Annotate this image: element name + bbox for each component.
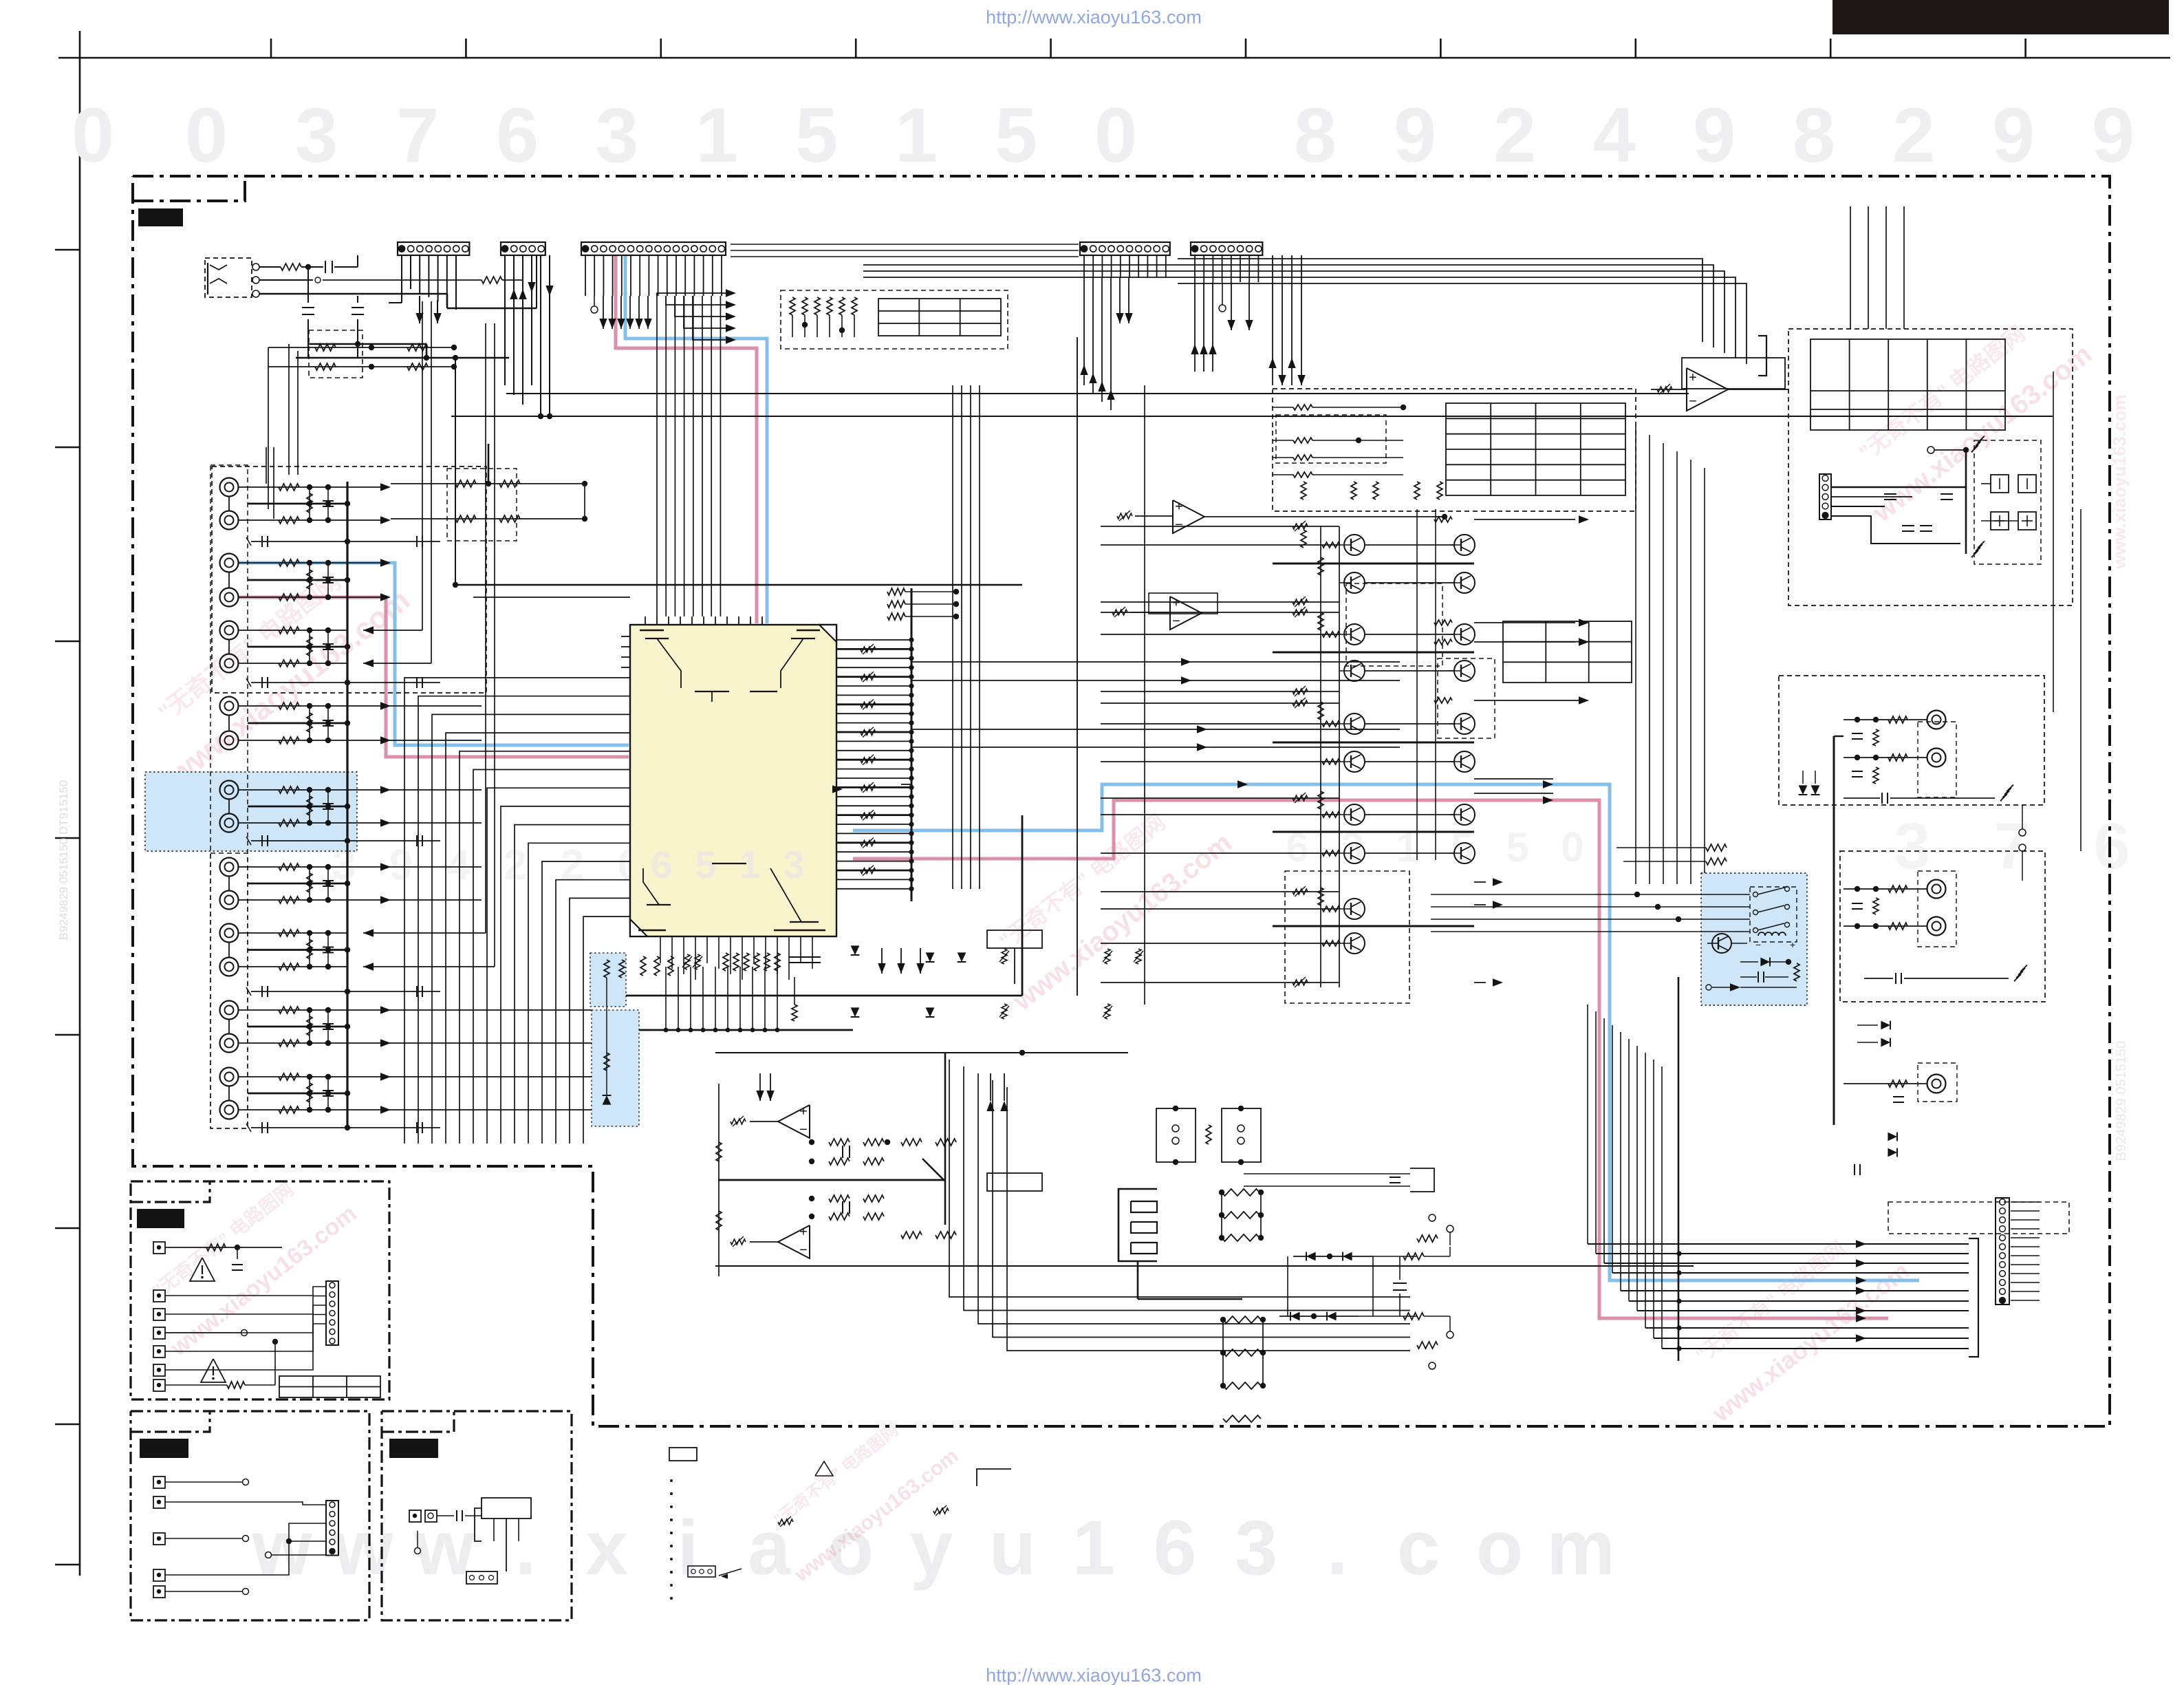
svg-text:3: 3	[783, 843, 804, 886]
svg-text:5: 5	[995, 92, 1037, 178]
svg-text:−: −	[1172, 614, 1180, 629]
svg-text:0: 0	[1094, 92, 1137, 178]
svg-text:6: 6	[496, 92, 539, 178]
svg-text:7: 7	[396, 92, 439, 178]
svg-text:w: w	[413, 1505, 475, 1591]
svg-text:8: 8	[1294, 92, 1337, 178]
svg-text:9: 9	[1394, 92, 1436, 178]
svg-text:w: w	[251, 1505, 312, 1591]
svg-text:+: +	[1790, 939, 1795, 950]
svg-text:2: 2	[1493, 92, 1536, 178]
svg-text:1: 1	[695, 92, 738, 178]
svg-text:0: 0	[1561, 824, 1583, 870]
svg-text:0: 0	[185, 92, 228, 178]
svg-text:9: 9	[389, 841, 413, 889]
svg-text:2: 2	[504, 841, 527, 889]
svg-text:www.xiaoyu163.com: www.xiaoyu163.com	[2109, 394, 2130, 569]
svg-text:http://www.xiaoyu163.com: http://www.xiaoyu163.com	[986, 1665, 1202, 1685]
svg-text:+: +	[1172, 595, 1180, 610]
svg-text:B9249829 0515150 DT915150: B9249829 0515150 DT915150	[57, 780, 70, 941]
svg-text:5: 5	[795, 92, 838, 178]
svg-text:2: 2	[561, 841, 584, 889]
svg-text:6: 6	[651, 843, 672, 886]
svg-text:i: i	[677, 1505, 698, 1591]
svg-text:+: +	[799, 1224, 808, 1239]
svg-text:u: u	[989, 1505, 1036, 1591]
svg-text:3: 3	[295, 92, 338, 178]
svg-text:−: −	[799, 1243, 808, 1258]
svg-text:8: 8	[1793, 92, 1835, 178]
svg-text:0: 0	[72, 92, 114, 178]
svg-text:5: 5	[1506, 824, 1528, 870]
svg-text:1: 1	[1072, 1505, 1115, 1591]
svg-text:1: 1	[895, 92, 938, 178]
svg-text:+: +	[1689, 370, 1697, 385]
svg-text:o: o	[1476, 1505, 1523, 1591]
svg-text:+: +	[799, 1104, 808, 1119]
svg-text:−: −	[1175, 517, 1183, 533]
svg-text:6: 6	[1154, 1505, 1196, 1591]
svg-text:3: 3	[1235, 1505, 1277, 1591]
svg-text:m: m	[1546, 1505, 1615, 1591]
svg-text:.: .	[515, 1505, 536, 1591]
svg-text:x: x	[585, 1505, 628, 1591]
svg-text:9: 9	[1992, 92, 2035, 178]
svg-text:9: 9	[2092, 92, 2134, 178]
svg-text:1: 1	[739, 843, 760, 886]
svg-text:9: 9	[1693, 92, 1736, 178]
svg-text:4: 4	[446, 841, 471, 889]
svg-text:6: 6	[2094, 810, 2130, 883]
svg-text:−: −	[799, 1122, 808, 1137]
svg-text:+: +	[1175, 499, 1183, 514]
svg-text:3: 3	[1894, 810, 1931, 883]
svg-text:c: c	[1397, 1505, 1440, 1591]
svg-text:2: 2	[1892, 92, 1935, 178]
svg-text:4: 4	[1593, 92, 1636, 178]
svg-text:y: y	[910, 1505, 953, 1591]
svg-text:http://www.xiaoyu163.com: http://www.xiaoyu163.com	[986, 7, 1202, 28]
svg-text:w: w	[332, 1505, 393, 1591]
svg-text:.: .	[1326, 1505, 1348, 1591]
svg-text:B9249829 0515150: B9249829 0515150	[2114, 1041, 2129, 1161]
svg-text:7: 7	[1994, 810, 2031, 883]
svg-text:−: −	[1689, 394, 1697, 409]
svg-text:5: 5	[695, 843, 716, 886]
svg-text:3: 3	[596, 92, 638, 178]
svg-text:−: −	[1755, 939, 1761, 950]
